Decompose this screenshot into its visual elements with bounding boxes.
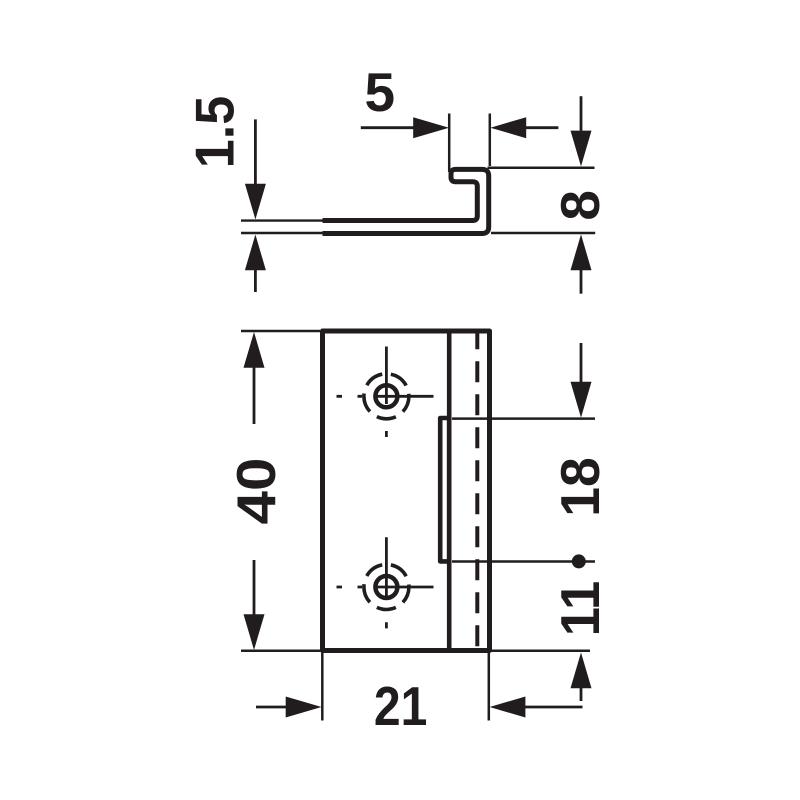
hole 2: circle (375, 576, 397, 598)
dimension 5: label (365, 61, 396, 123)
dimension 21: right arrowhead (left) (490, 697, 526, 718)
dimension 21: left arrowhead (right) (286, 697, 322, 718)
dimension 40: label (225, 458, 287, 525)
dimension 40: upper dimension line (253, 368, 256, 425)
front view: hook tab rectangle (440, 418, 449, 561)
hole 1: vertical centerline (385, 347, 388, 438)
svg-text:1.5: 1.5 (184, 96, 246, 169)
dimension 18: bottom extension line (452, 560, 595, 563)
dimension 8: lower arrowhead (up) (571, 234, 592, 270)
svg-text:18: 18 (549, 457, 611, 517)
dimension 8: upper arrowhead (down) (571, 131, 592, 167)
side profile: bent sheet outline (plate + hook) (323, 169, 489, 233)
dimension 5: left extension line (448, 114, 451, 173)
dimension 1.5: label (184, 96, 246, 169)
dimension 21: left extension line (321, 652, 324, 721)
front view: hidden edge (dashed line) (475, 331, 479, 651)
dimension 5: left dimension line (361, 126, 414, 129)
dimension 18: top extension line (452, 417, 595, 420)
dimension 8: upper dimension line (580, 96, 583, 131)
svg-text:40: 40 (225, 458, 287, 525)
dimension 21: left dimension line (256, 706, 287, 709)
svg-text:21: 21 (374, 675, 428, 737)
hole 2: vertical centerline (385, 537, 388, 628)
svg-text:11: 11 (549, 581, 611, 637)
dimension chain dot at 18/11 boundary (572, 554, 586, 568)
dimension 40: top extension line (241, 330, 320, 333)
dimension 18: upper dimension line (580, 343, 583, 382)
svg-text:8: 8 (549, 190, 611, 221)
dimension 11: lower arrowhead (up) (571, 653, 592, 689)
dimension 18: upper arrowhead (down) (571, 382, 592, 418)
dimension 21: right dimension line (525, 706, 583, 709)
dimension 11: lower dimension line (580, 688, 583, 701)
dimension 5: right arrowhead (left) (490, 117, 526, 138)
dimension 18: label (549, 457, 611, 517)
front view: bend line (solid) (447, 333, 452, 649)
hole 1: circle (375, 385, 397, 407)
dimension 8: bottom extension line (491, 232, 595, 235)
dimension 21: right extension line (488, 652, 491, 721)
front view: plate outline rectangle (323, 331, 490, 651)
dimension 1.5: lower dimension line (254, 270, 257, 292)
dimension 40: lower dimension line (253, 560, 256, 615)
dimension 5: left arrowhead (right) (413, 117, 449, 138)
hole 1: horizontal centerline (337, 395, 434, 398)
dimension 1.5: upper arrowhead (down) (245, 184, 266, 220)
dimension 1.5: lower arrowhead (up) (245, 235, 266, 271)
hole 1: dashed circle (364, 374, 409, 419)
hole 2: horizontal centerline (337, 586, 434, 589)
dimension 40: lower arrowhead (down) (244, 614, 265, 650)
dimension 8: label (549, 190, 611, 221)
hole 2: dashed circle (364, 565, 409, 610)
dimension 40: bottom extension line (long, shared) (241, 650, 590, 653)
dimension 5: right extension line (489, 114, 492, 167)
dimension 5: right dimension line (526, 126, 558, 129)
dimension 21: label (374, 675, 428, 737)
side profile: thin continuation lines of plate (left) (241, 221, 323, 233)
dimension 11: label (549, 581, 611, 637)
dimension 40: upper arrowhead (up) (244, 332, 265, 368)
svg-text:5: 5 (365, 61, 396, 123)
dimension 8: top extension line (488, 166, 595, 169)
dimension 8: lower dimension line (580, 270, 583, 294)
dimension 1.5: upper dimension line (254, 119, 257, 184)
